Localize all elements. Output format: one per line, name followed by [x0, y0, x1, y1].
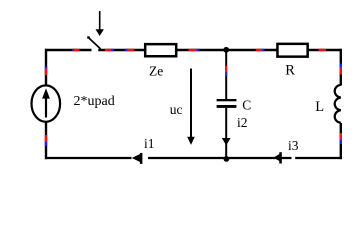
node top junction [223, 47, 229, 53]
resistor R (box) [277, 44, 307, 57]
current arrow i3 [273, 152, 281, 163]
svg-text:L: L [315, 99, 324, 115]
capacitor C (plates) [217, 99, 237, 108]
wire capacitor branch lower with current arrow i2 [222, 108, 231, 158]
svg-text:2*upad: 2*upad [74, 94, 115, 109]
current source U1 (circle with up arrow) [32, 85, 61, 121]
wire switch right contact to Ze [98, 49, 145, 51]
current arrow i1 [132, 153, 143, 164]
wire bottom (left corner to i1 arrow) [45, 157, 132, 159]
wire Ze to R (through top node) [177, 49, 278, 51]
svg-text:i2: i2 [237, 115, 248, 130]
wire left vertical below source [45, 122, 47, 159]
svg-text:uc: uc [170, 102, 183, 117]
wire capacitor branch upper [225, 50, 227, 100]
wire bottom (i1 to i3 segment with bottom node) [148, 157, 292, 159]
svg-text:R: R [285, 63, 295, 79]
resistor Ze (box) [145, 44, 176, 56]
voltage arrow uc [187, 69, 195, 145]
wire left vertical above source [45, 49, 47, 85]
wire bottom right (gap to corner) [295, 157, 342, 159]
svg-text:Ze: Ze [149, 63, 163, 78]
node bottom junction [224, 156, 230, 162]
wire inductor to bottom-right corner [340, 123, 342, 159]
actuation arrow above switch [96, 11, 104, 36]
svg-text:C: C [242, 98, 251, 113]
wire R to top-right corner and down [309, 49, 343, 86]
svg-text:i1: i1 [144, 136, 155, 151]
svg-text:i3: i3 [288, 138, 299, 153]
switch S1 (open blade) [87, 36, 100, 49]
inductor L (coil) [335, 85, 341, 123]
wire top-left horizontal (corner to switch left contact) [45, 49, 92, 51]
